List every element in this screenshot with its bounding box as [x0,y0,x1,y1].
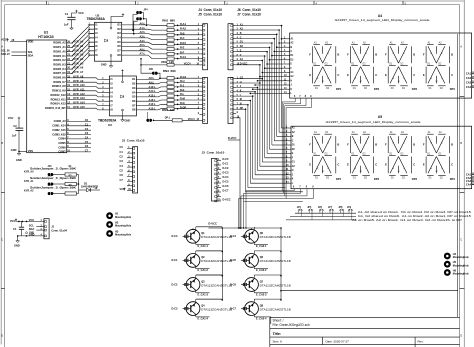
svg-text:M: M [360,81,362,83]
svg-text:VSS: VSS [28,149,34,153]
svg-text:C: C [337,163,339,167]
svg-text:U4: U4 [378,14,382,18]
svg-text:1: 1 [237,77,239,79]
svg-text:1: 1 [237,24,239,26]
svg-text:DTA113ZCAHZGTL1B: DTA113ZCAHZGTL1B [260,307,291,311]
diode D1 1N4148WSFR [79,181,101,192]
svg-text:13: 13 [284,88,287,90]
resistor network RN3 680 [163,69,176,110]
svg-text:8: 8 [237,108,239,110]
svg-text:SolderJumper_3_Open 39K: SolderJumper_3_Open 39K [30,176,76,180]
svg-text:7: 7 [299,187,301,189]
svg-text:1: 1 [41,220,43,222]
svg-text:COM5: COM5 [58,141,66,145]
svg-text:R-G1: R-G1 [180,55,187,59]
svg-text:I8: I8 [95,53,98,57]
svg-text:SDA: SDA [29,227,35,231]
svg-text:5: 5 [284,54,286,56]
svg-text:5: 5 [198,94,200,96]
U1 SCL SDA wires and labels [1,49,27,57]
svg-text:8: 8 [218,191,220,193]
U5 digit 3 segments [385,131,418,181]
U4 digit 1 segments [309,41,342,91]
svg-text:D2: D2 [291,59,295,61]
svg-text:E: E [291,64,293,66]
svg-text:R-H: R-H [180,79,185,83]
svg-text:J: J [398,50,399,52]
svg-text:B: B [291,47,293,49]
svg-text:C5: C5 [85,140,89,144]
mounting hole H3 [106,230,132,237]
svg-text:D-C2: D-C2 [223,166,230,170]
svg-text:SolderJumper_3_Open 39K: SolderJumper_3_Open 39K [30,186,76,190]
svg-text:O1: O1 [117,23,121,27]
svg-text:A1: A1 [390,41,394,44]
svg-text:9: 9 [312,187,314,189]
svg-text:7: 7 [128,175,130,177]
svg-text:A3:L: A3:L [140,34,146,38]
svg-text:A13:L: A13:L [149,98,157,102]
svg-text:R-N: R-N [180,101,185,105]
svg-text:D-C1: D-C1 [172,258,179,262]
svg-text:9: 9 [286,161,288,163]
svg-text:DP4: DP4 [450,177,456,181]
U5 left segment pin stubs [286,127,296,185]
solder jumper JP3 with resistor R3 39K [24,185,79,195]
svg-text:MountingHole: MountingHole [115,225,132,228]
svg-text:A2: A2 [325,41,329,44]
svg-text:DP4: DP4 [450,87,456,91]
svg-text:Title:: Title: [273,332,282,336]
svg-text:SDA: SDA [28,53,34,57]
U5 common anode pins CA1-CA4 right side [466,173,474,187]
svg-text:2: 2 [198,29,200,31]
svg-text:D-C1: D-C1 [223,162,230,166]
svg-text:N: N [355,78,357,80]
svg-text:HT16K33: HT16K33 [38,35,53,39]
svg-text:1: 1 [218,159,220,161]
connector J2 Conn_01x10 [120,139,145,194]
svg-text:E: E [347,73,349,77]
svg-text:Sheet: /: Sheet: / [273,318,284,322]
svg-text:D: D [460,335,462,338]
svg-text:N: N [317,168,319,170]
svg-text:12: 12 [284,84,287,86]
svg-text:E_CA2-2: E_CA2-2 [256,268,267,272]
svg-text:J5 Conn_01x10: J5 Conn_01x10 [198,13,222,17]
svg-text:1: 1 [284,37,286,39]
svg-text:I6: I6 [95,44,98,48]
svg-text:O2: O2 [132,82,136,86]
svg-text:R-A1: R-A1 [180,22,187,26]
svg-text:7: 7 [299,96,301,98]
svg-text:VCC: VCC [1,38,7,42]
svg-text:I3: I3 [95,31,98,35]
svg-text:B: B [1,142,3,145]
svg-text:DTA113ZCAHZGTL1B: DTA113ZCAHZGTL1B [260,259,291,263]
wire D-VCC rail extension to right side vertical [280,290,458,292]
svg-text:SCL: SCL [28,50,34,54]
svg-text:KYR_A0: KYR_A0 [24,171,34,174]
wire bundle U1 ROW8-15 to U3 inputs [73,78,102,110]
svg-text:F: F [423,142,425,146]
svg-text:R-E: R-E [180,46,185,50]
svg-text:A1: A1 [428,41,432,44]
svg-text:G1: G1 [291,72,295,74]
svg-text:2: 2 [128,152,130,154]
svg-text:R-J: R-J [180,84,185,88]
svg-text:11: 11 [284,79,287,81]
svg-text:A: A [460,46,462,49]
mounting hole H1 [106,212,132,219]
svg-text:G1: G1 [292,162,296,164]
svg-text:J: J [292,174,294,176]
net D-VCC label [228,136,240,140]
svg-text:9: 9 [284,71,286,73]
svg-text:D2: D2 [402,88,406,90]
svg-text:ROW3_K1: ROW3_K1 [53,54,66,58]
svg-text:B: B [451,142,453,146]
svg-text:O6: O6 [117,44,121,48]
svg-text:DTA113ZCAHZGTL1B: DTA113ZCAHZGTL1B [201,307,232,311]
wire below U5 to jumper area [244,200,303,202]
svg-text:I5: I5 [95,40,98,44]
transistor Q2 DTA113Z [172,251,233,272]
svg-text:J2 Conn_01x10: J2 Conn_01x10 [122,139,145,143]
svg-text:O7: O7 [132,103,136,107]
svg-text:D-VCC: D-VCC [223,198,231,202]
svg-text:J: J [291,85,293,87]
solder jumper JP9 at RN4 [146,112,152,122]
mounting hole H2 [106,221,132,228]
svg-text:CA2: CA2 [466,76,472,80]
svg-text:1: 1 [102,78,104,80]
svg-text:E: E [309,73,311,77]
right column emitter stubs to rail [252,228,282,299]
R-segment net labels RN3 to J5 [174,75,199,109]
svg-text:D2: D2 [292,149,296,151]
svg-text:E_CA1-2: E_CA1-2 [198,268,209,272]
U1 COM pin stubs and C0-C7 labels [67,118,91,152]
display U5 G21957 14-segment common anode [291,115,472,189]
svg-text:N: N [430,78,432,80]
svg-text:D-C2: D-C2 [172,282,179,286]
svg-text:4: 4 [198,89,200,92]
svg-text:A10:L: A10:L [149,85,157,89]
svg-text:3: 3 [198,34,200,36]
svg-text:GND: GND [29,233,34,235]
svg-text:R-K: R-K [180,88,185,92]
capacitor C2 decoupling with VCC and GND [8,116,27,162]
svg-text:2: 2 [286,131,288,133]
svg-text:KYR_A1: KYR_A1 [24,180,34,183]
svg-text:D2: D2 [402,178,406,180]
svg-text:E: E [385,73,387,77]
svg-text:G21957_Green_14_segment_LED_Di: G21957_Green_14_segment_LED_Display_comm… [326,120,422,124]
svg-text:C3: C3 [120,159,124,163]
svg-text:M: M [436,171,438,173]
svg-text:9: 9 [198,113,200,115]
svg-text:DP2: DP2 [374,87,380,91]
svg-text:B: B [337,52,339,56]
svg-text:C0: C0 [85,118,89,122]
svg-text:1: 1 [128,147,130,149]
svg-text:I5: I5 [111,95,114,99]
svg-text:I2: I2 [111,82,114,86]
svg-text:Q4: Q4 [201,303,205,307]
wires U2 outputs to RN1 with A0:L-A7:L labels [122,22,167,59]
svg-text:B: B [451,52,453,56]
U4 left segment pin stubs [284,37,295,95]
svg-text:ROW0_A2: ROW0_A2 [53,41,66,45]
svg-text:6: 6 [218,182,220,184]
svg-text:JP4: JP4 [144,9,149,12]
svg-text:D1: D1 [315,88,319,90]
svg-text:6: 6 [198,99,200,101]
svg-text:F: F [240,54,242,57]
svg-text:7: 7 [198,53,200,55]
svg-text:10: 10 [196,119,199,121]
svg-text:A15:L: A15:L [149,107,157,111]
svg-text:J4 Conn_01x10: J4 Conn_01x10 [198,8,222,12]
svg-text:5: 5 [218,177,220,179]
svg-text:K: K [366,143,368,145]
svg-text:O5: O5 [132,95,136,99]
svg-text:H: H [240,81,242,84]
svg-text:RN4 120: RN4 120 [162,108,175,112]
svg-text:D1: D1 [292,145,296,147]
svg-text:JP4: JP4 [297,206,302,209]
svg-text:O7: O7 [117,49,121,53]
wire J7 pin10 D-VCC down to transistor rail [236,118,241,229]
IC U1 HT16K33 [27,31,67,154]
svg-text:ROW4_K2: ROW4_K2 [53,58,66,62]
svg-text:F: F [309,142,311,146]
svg-text:ROW5_K3: ROW5_K3 [53,62,66,66]
svg-text:C: C [337,73,339,77]
svg-text:D2: D2 [326,178,330,180]
svg-text:R-M: R-M [180,97,185,101]
svg-text:SDA 27: SDA 27 [1,52,10,56]
resistor RN4 120 and VCC4 wire to J5 pin 10 [153,108,200,122]
svg-text:C: C [413,163,415,167]
svg-text:DP1: DP1 [336,177,342,181]
svg-text:D2: D2 [364,88,368,90]
emitter rail right column [280,228,282,301]
svg-text:A5:L: A5:L [140,43,146,47]
solder jumper JP1 with resistor R1 39K [24,166,79,176]
display U4 G21957 14-segment common anode [290,14,472,98]
svg-text:I7: I7 [111,103,114,107]
net label VCC at J1 [10,219,17,224]
svg-text:K: K [328,53,330,55]
svg-text:A2: A2 [439,41,443,44]
U4 digit 4 segments [423,41,456,91]
svg-text:B: B [413,142,415,146]
svg-text:3: 3 [237,86,239,88]
J1 wires VCC SCL SDA GND [16,221,45,237]
svg-text:F: F [309,52,311,56]
svg-text:VCC: VCC [78,11,84,15]
svg-text:6: 6 [128,171,130,173]
svg-text:D-VCC: D-VCC [228,136,237,140]
title block [270,317,460,347]
connector J7 Conn_01x10 [228,76,244,123]
svg-text:D-C4: D-C4 [223,175,230,179]
svg-text:2: 2 [218,164,220,166]
svg-text:2: 2 [237,29,239,31]
svg-text:B: B [375,52,377,56]
connector reference text J4 J5 J6 J7 [198,8,261,17]
svg-text:4: 4 [102,90,104,93]
svg-text:10: 10 [284,75,287,77]
svg-text:G21957_Green_14_segment_LED_Di: G21957_Green_14_segment_LED_Display_comm… [335,18,431,22]
svg-text:A14:L: A14:L [149,102,157,106]
svg-text:3: 3 [284,46,286,48]
svg-text:E_CA1-1: E_CA1-1 [198,244,209,248]
IC U3 TBD62083A [98,76,136,127]
svg-text:N: N [317,78,319,80]
svg-text:C: C [460,239,462,242]
svg-text:10: 10 [218,200,221,202]
svg-text:9: 9 [237,59,239,61]
transistor Q5 DTA113Z [230,227,291,248]
svg-text:E: E [423,163,425,167]
connector J3 Conn_01x10 [202,151,231,202]
svg-text:O5: O5 [117,40,121,44]
solder jumper JP11 on net A0:L [136,9,148,19]
svg-text:N: N [430,168,432,170]
svg-text:JP6: JP6 [318,207,323,209]
svg-text:K: K [366,53,368,55]
svg-text:R-L: R-L [180,92,185,96]
U2 GND pin [101,61,113,67]
svg-text:D-C5: D-C5 [230,258,237,262]
wires U3 outputs to RN3 with A8:L-A15:L labels [136,76,167,110]
U5 digit 1 segments [309,131,342,181]
svg-text:D-C0: D-C0 [223,157,230,161]
svg-text:1: 1 [198,24,200,26]
svg-text:C: C [1,239,3,242]
svg-text:VCC: VCC [10,219,16,223]
svg-text:5: 5 [128,166,130,168]
svg-text:7: 7 [284,63,286,65]
svg-text:A1:L: A1:L [140,26,146,30]
svg-text:A8:L: A8:L [149,76,155,80]
svg-text:3: 3 [237,33,239,35]
svg-text:CA3: CA3 [466,81,472,85]
svg-text:11: 11 [286,169,289,171]
transistor Q4 DTA113Z [172,299,233,320]
svg-text:E_CA2-1: E_CA2-1 [256,244,267,248]
svg-text:GND: GND [14,243,20,247]
capacitor C1 1uF with VCC and GND [64,10,84,30]
transistor Q3 DTA113Z [172,275,233,296]
svg-text:B: B [375,142,377,146]
svg-text:7: 7 [237,104,239,106]
mounting hole H5 [444,260,470,267]
connector J5 Conn_01x10 [196,77,207,124]
svg-text:M: M [436,81,438,83]
svg-text:J1: J1 [51,225,54,229]
U3 input pin stubs [102,78,110,110]
svg-text:C4: C4 [85,136,89,140]
emitter rail left column [222,228,224,301]
svg-text:VCC4: VCC4 [188,117,195,121]
svg-text:MountingHole: MountingHole [453,273,470,276]
wire bundle U1 ROW0-7 to U2 inputs (diagonals) [72,25,95,74]
svg-text:M: M [398,171,400,173]
svg-text:ROW9_K7: ROW9_K7 [53,80,66,84]
svg-text:U5: U5 [378,115,382,119]
svg-text:D1: D1 [291,55,295,57]
svg-text:KYR_A2: KYR_A2 [24,190,34,193]
svg-text:JP8: JP8 [149,69,154,71]
svg-text:G2: G2 [291,76,295,78]
svg-text:O1: O1 [132,77,136,81]
svg-text:5: 5 [237,42,239,44]
svg-text:C: C [291,51,293,53]
svg-text:Rev:: Rev: [418,340,424,344]
svg-text:6: 6 [237,99,239,101]
svg-text:C3: C3 [85,131,89,135]
svg-text:C5: C5 [120,169,124,173]
U1 ROW pin stubs and KYR net labels [67,40,86,109]
svg-text:R-D1: R-D1 [180,41,187,45]
solder jumper JP12 on net A1:L [132,15,147,35]
svg-text:3: 3 [102,87,104,89]
svg-text:D-C4: D-C4 [230,234,237,238]
svg-text:SCL 26: SCL 26 [1,49,10,53]
solder jumper JP8 [141,65,161,79]
svg-text:R-A2: R-A2 [180,27,187,31]
svg-text:I1: I1 [95,23,98,27]
connector J1 Conn_01x04 [29,218,68,239]
svg-text:6: 6 [284,58,286,60]
svg-text:I6: I6 [111,99,114,103]
junction dots RN3 outputs [177,77,179,109]
svg-text:C0: C0 [120,145,124,149]
svg-text:F: F [291,68,293,70]
transistor Q6 DTA113Z [230,251,291,272]
svg-text:I3: I3 [111,86,114,90]
svg-text:VCC: VCC [120,187,126,191]
svg-text:U3: U3 [108,123,112,127]
svg-text:O6: O6 [132,99,136,103]
svg-text:C: C [375,73,377,77]
svg-text:B: B [292,136,294,138]
svg-text:J: J [360,140,361,142]
resistor network RN1 680 [162,19,175,61]
svg-text:DP3: DP3 [412,87,418,91]
svg-text:Q3: Q3 [201,279,205,283]
svg-text:1uF: 1uF [64,23,69,27]
U5 digit 2 segments [347,131,380,181]
svg-text:C: C [240,36,242,39]
svg-text:J3 Conn_01x10: J3 Conn_01x10 [202,151,225,155]
svg-text:J6 Conn_01x10: J6 Conn_01x10 [237,8,261,12]
svg-text:ROW2_A0: ROW2_A0 [53,49,66,53]
svg-text:ROW7_K5: ROW7_K5 [53,71,66,75]
svg-text:A0:L: A0:L [140,22,146,26]
svg-text:D-C0: D-C0 [172,234,179,238]
svg-text:K: K [291,89,293,91]
svg-text:COM2_K15: COM2_K15 [52,128,66,132]
svg-text:MountingHole: MountingHole [115,234,132,237]
svg-text:A2: A2 [401,41,405,44]
svg-text:A2: A2 [292,131,296,134]
svg-text:A1: A1 [314,131,318,134]
